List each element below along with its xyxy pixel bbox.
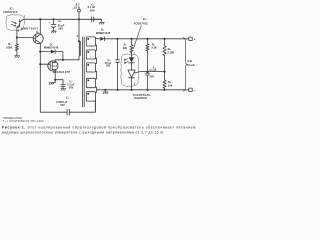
- ground Q2: [49, 83, 54, 85]
- svg-text:FOD2741C: FOD2741C: [134, 22, 148, 26]
- wire ref line: [135, 72, 165, 73]
- svg-text:50V: 50V: [60, 103, 65, 107]
- resistor R4 2.15K: [163, 39, 166, 72]
- error amp TL431: [128, 70, 135, 78]
- svg-text:0.1 µF: 0.1 µF: [149, 68, 157, 72]
- wire output top rail: [105, 38, 189, 40]
- opto emitter arrow: [17, 26, 19, 28]
- wire primary bottom: [55, 60, 79, 61]
- diode D1 MMBD4148: [51, 50, 55, 54]
- svg-text:...15 В: ...15 В: [72, 6, 80, 10]
- wire base to Q1: [17, 37, 33, 39]
- svg-text:16V: 16V: [106, 64, 111, 68]
- wire Q2 source down: [54, 71, 56, 80]
- capacitor C4 0.0022uF: [67, 109, 69, 115]
- node base drive: [16, 36, 18, 38]
- svg-text:MMBT5087: MMBT5087: [21, 26, 38, 30]
- svg-text:10k: 10k: [168, 83, 173, 87]
- svg-text:T₁ = COILTRONICS VP1-1400: T₁ = COILTRONICS VP1-1400: [3, 120, 44, 123]
- wire top rail: [23, 18, 101, 20]
- ground C1: [99, 19, 104, 24]
- resistor R5 10k: [163, 72, 166, 90]
- svg-text:−: −: [194, 89, 196, 93]
- diode D2 MMBD4148: [100, 37, 104, 41]
- node ref / divider: [163, 71, 165, 73]
- transistor Q1 MMBT5087: [33, 34, 43, 44]
- svg-text:MMBD4148: MMBD4148: [44, 45, 59, 49]
- node ref / C6: [146, 71, 148, 73]
- secondary winding 1: [86, 37, 95, 46]
- svg-text:2.15K: 2.15K: [167, 50, 174, 54]
- node source: [54, 79, 56, 81]
- wire Q1 emitter up: [39, 19, 41, 34]
- capacitor C2 22uF: [51, 19, 56, 31]
- svg-text:Q₁: Q₁: [36, 30, 39, 34]
- secondary winding 2: [86, 50, 95, 59]
- node D1 branch: [39, 51, 41, 53]
- terminal output minus: [189, 88, 192, 91]
- svg-text:Рисунок 1. Этот изолированный: Рисунок 1. Этот изолированный обратноход…: [2, 126, 196, 130]
- node C5: [116, 38, 118, 40]
- ground R1: [15, 56, 20, 58]
- capacitor C3 0.1uF: [61, 85, 65, 89]
- capacitor C5 22uF: [116, 39, 120, 90]
- capacitor C1 0.1uF: [92, 17, 102, 22]
- wire winding5 bottom to C-rail: [94, 101, 96, 113]
- svg-text:ведомые широкополосные измерит: ведомые широкополосные измерители с выхо…: [2, 131, 165, 135]
- node C5 bottom: [116, 89, 118, 91]
- wire D1 cathode to primary bottom: [55, 52, 63, 60]
- terminal output plus: [189, 37, 192, 40]
- svg-text:390: 390: [123, 46, 128, 50]
- node R3: [146, 38, 148, 40]
- svg-text:50V: 50V: [90, 8, 95, 12]
- wire Q1 collector / left rail: [39, 43, 41, 112]
- svg-text:50V: 50V: [69, 86, 74, 90]
- resistor R2 390: [130, 39, 133, 56]
- svg-text:+: +: [194, 38, 196, 42]
- optocoupler IC1 output side outline: [6, 15, 25, 31]
- node TL431 bottom: [131, 89, 133, 91]
- svg-text:70 мА: 70 мА: [187, 63, 195, 67]
- node input / rail: [78, 18, 80, 20]
- svg-text:50V: 50V: [150, 75, 155, 79]
- transformer T1 core: [82, 37, 84, 107]
- svg-text:100K: 100K: [6, 46, 12, 50]
- wire input drop: [78, 12, 80, 19]
- svg-text:MMBD4148: MMBD4148: [96, 31, 111, 35]
- wire to Q2 ground: [51, 80, 55, 83]
- node R5 bottom: [163, 89, 165, 91]
- node D1 / drain: [62, 59, 64, 61]
- opto phototransistor base bar: [19, 20, 21, 27]
- secondary winding 5: [86, 92, 95, 101]
- node R4: [163, 38, 165, 40]
- ground C2: [51, 31, 56, 33]
- svg-text:16V: 16V: [58, 27, 63, 31]
- svg-text:FOD2741C: FOD2741C: [3, 10, 17, 14]
- brace output: [183, 38, 187, 92]
- node Q1 emitter / rail: [39, 18, 41, 20]
- opto phototransistor collector: [20, 19, 24, 22]
- svg-text:5.3K: 5.3K: [152, 46, 158, 50]
- resistor R3 5.3K: [146, 39, 149, 72]
- wire winding1 to D2: [95, 37, 100, 40]
- pointer line to LED: [133, 26, 141, 49]
- secondary winding 4: [86, 78, 95, 87]
- wire output bottom rail: [97, 89, 189, 91]
- wire winding1-2 link: [95, 45, 96, 50]
- primary phase dot: [78, 40, 80, 42]
- node R2: [131, 38, 133, 40]
- wire bottom C-rail: [40, 101, 95, 113]
- ground C3: [61, 89, 66, 91]
- wire to C3: [55, 80, 63, 85]
- opto phototransistor light arrows: [12, 22, 17, 24]
- node C2 / rail: [52, 18, 54, 20]
- secondary winding 3: [86, 63, 95, 72]
- wire gate: [40, 63, 48, 65]
- wire D1 anode: [40, 51, 51, 53]
- node Q2 gate: [39, 63, 41, 65]
- LED of IC1: [129, 57, 135, 62]
- transistor Q2: [48, 61, 58, 71]
- capacitor C6 0.1uF: [146, 72, 150, 90]
- svg-text:ОШИБКИ: ОШИБКИ: [134, 97, 147, 100]
- wire opto emitter down: [16, 30, 18, 37]
- wire winding2-3 link: [95, 58, 96, 63]
- optocoupler IC1 LED side outline: [121, 54, 139, 86]
- terminal input 8.7-15V: [78, 9, 81, 12]
- node C6 bottom: [146, 89, 148, 91]
- wire winding4-5 link / output return tap: [95, 87, 96, 92]
- LED light arrows: [124, 59, 128, 61]
- opto phototransistor emitter: [17, 25, 20, 31]
- transformer primary winding: [79, 19, 80, 60]
- resistor R1: [15, 38, 18, 56]
- wire winding3-4 link: [95, 71, 96, 79]
- wire TL431 cathode down: [131, 78, 133, 90]
- node gnd stub: [104, 89, 106, 91]
- ground output: [103, 90, 108, 94]
